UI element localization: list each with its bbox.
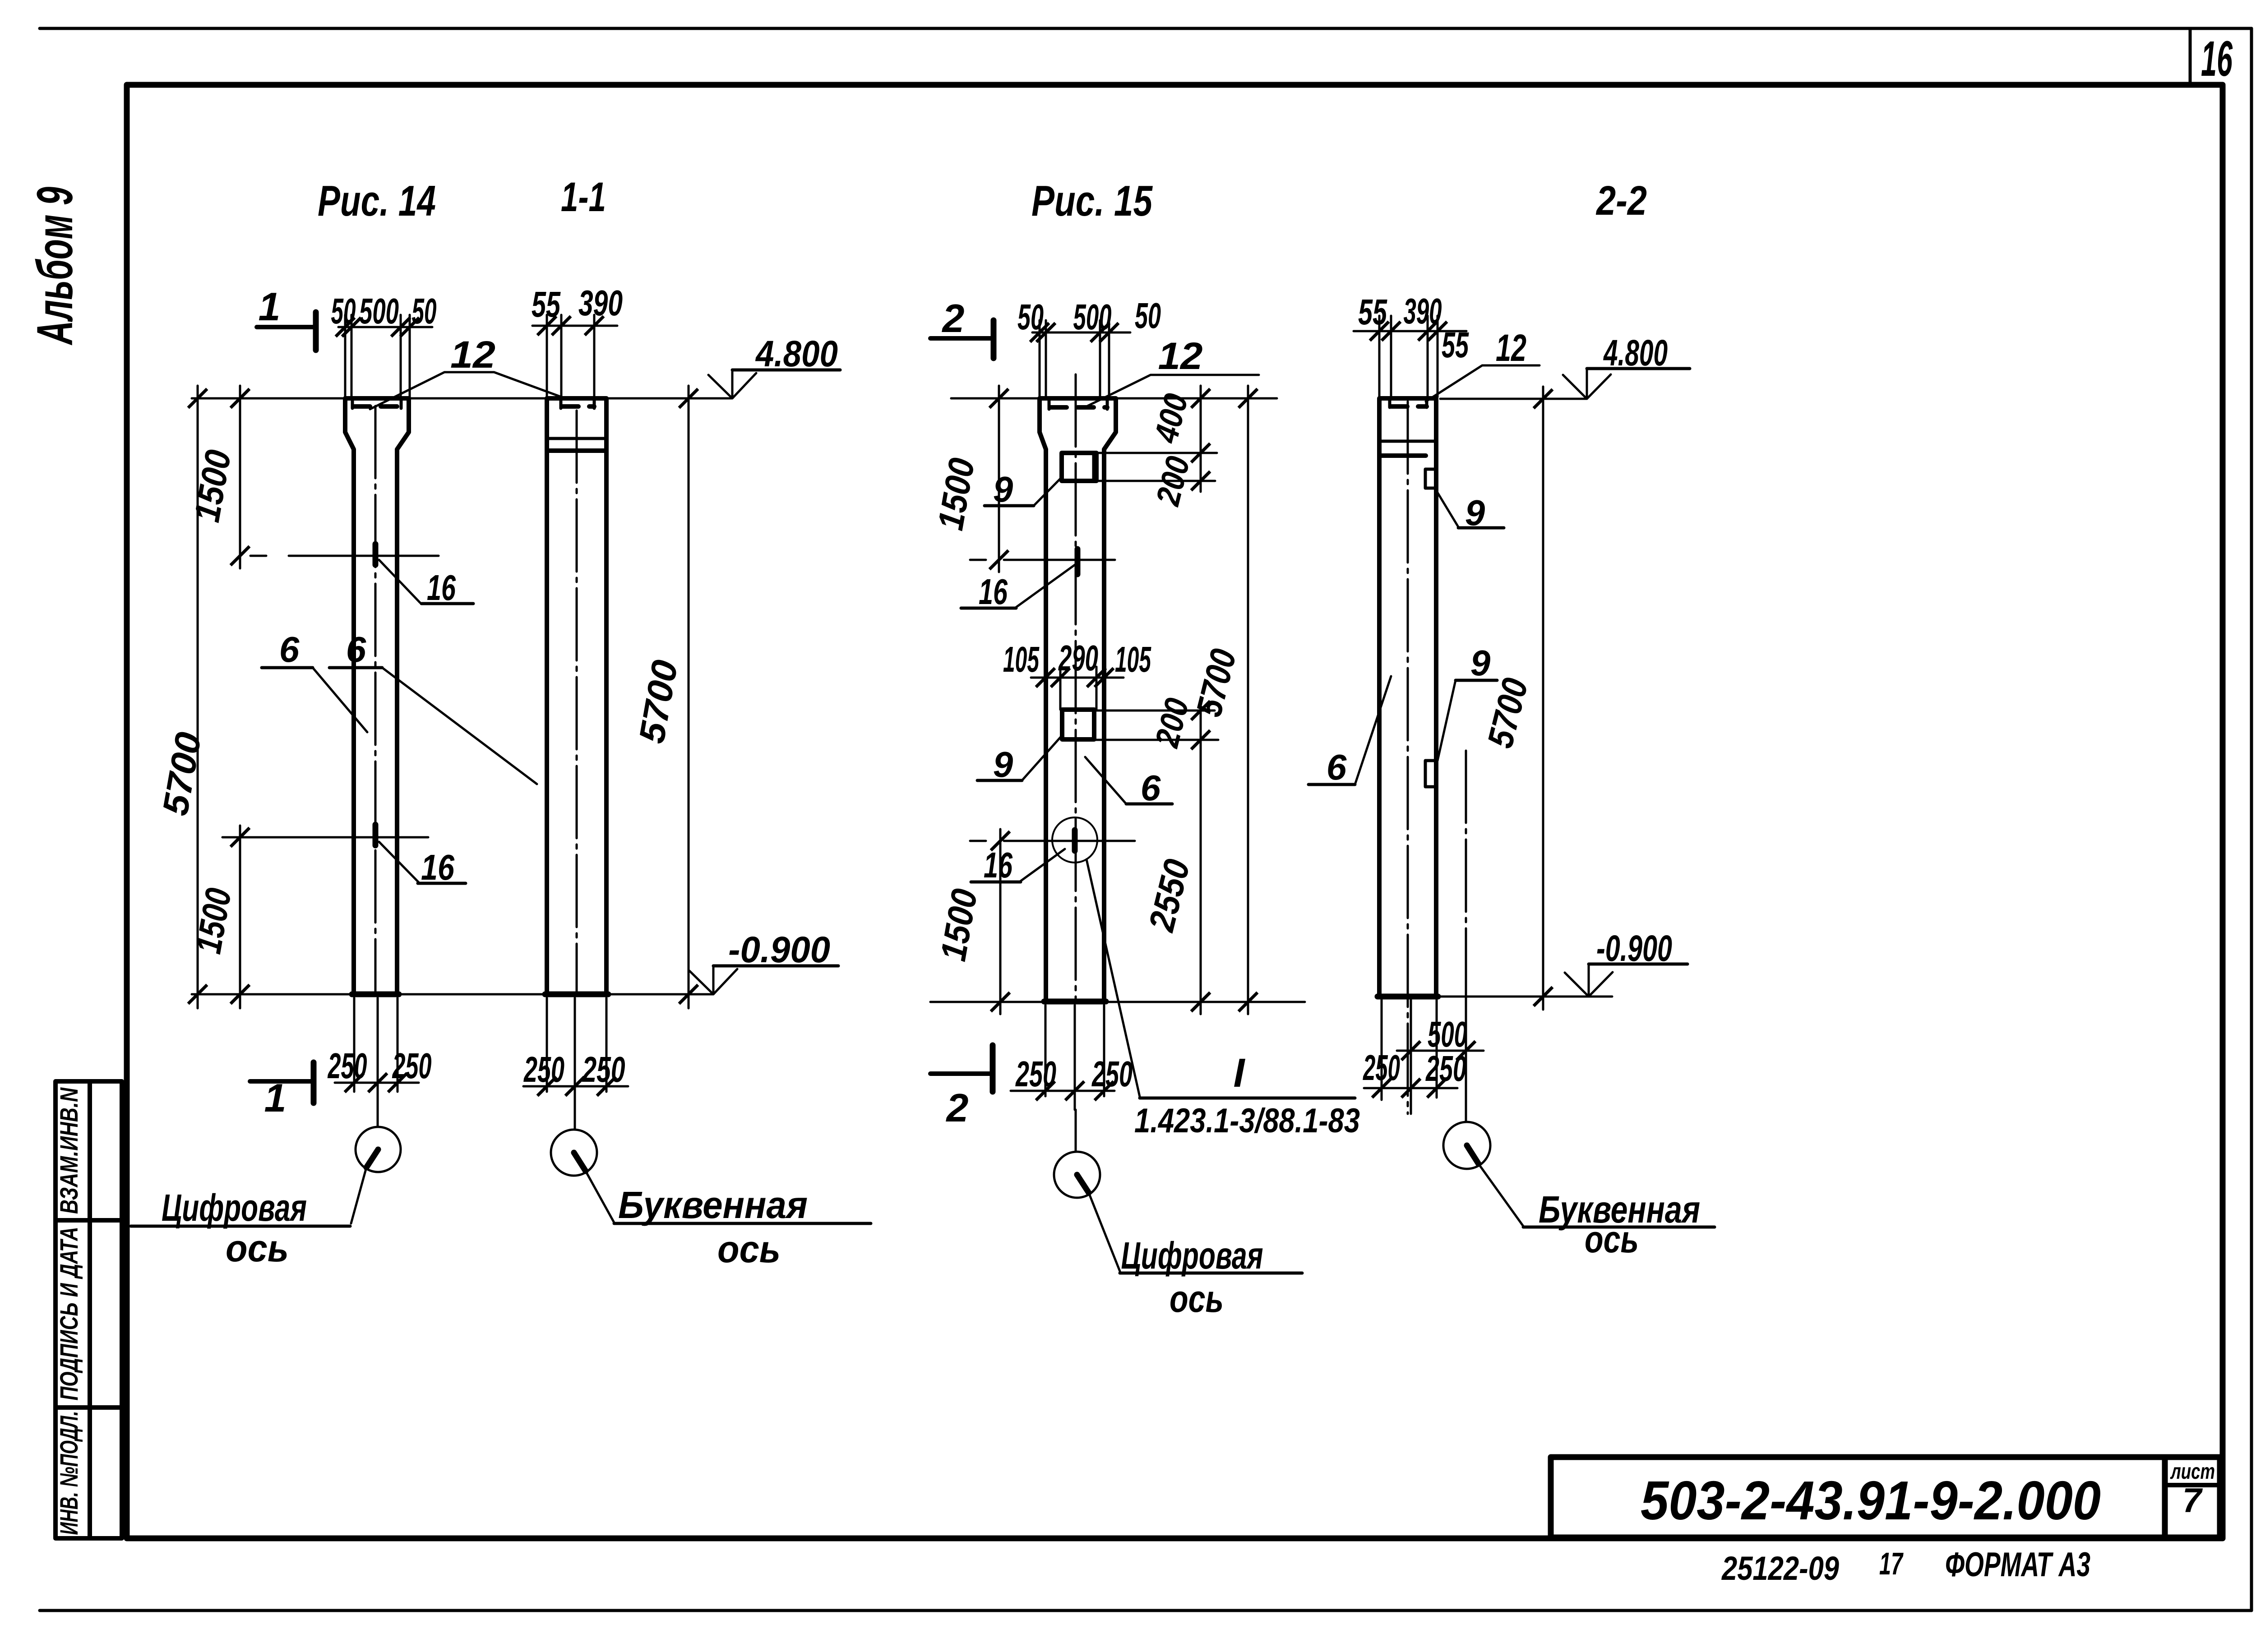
label 12 leader [1083,375,1259,408]
svg-text:50: 50 [1135,295,1161,336]
svg-text:2-2: 2-2 [1595,178,1647,224]
lower 16 underline [418,882,466,885]
svg-text:ось: ось [1170,1278,1224,1320]
column head outline [1040,398,1116,1001]
label 12 leader [1426,365,1539,401]
svg-text:390: 390 [1404,291,1442,331]
lower 1500 dimension line [239,826,241,1008]
lower embed 9 underline [1456,679,1497,682]
dim 500 line [1397,1050,1484,1052]
circled 16 axis line [1012,840,1135,842]
upper embed 9 leader [1435,488,1458,527]
bottom 250-250 dimension line [523,1085,628,1088]
dim 2550 line [1200,740,1202,1014]
label 12 leader (to notches of A and B) [370,372,568,409]
label 6 leader [382,668,537,784]
upper 16 leader [1016,564,1076,607]
FIGURE B : section 1-1 [329,174,871,1270]
dim 5700 line [1247,386,1249,1014]
svg-text:7: 7 [2182,1481,2203,1520]
upper mark 16 bar [1075,549,1081,574]
svg-text:1-1: 1-1 [561,174,606,220]
svg-text:25122-09: 25122-09 [1721,1550,1839,1587]
circled 16 circle [1052,817,1097,863]
svg-text:55: 55 [1358,292,1387,332]
bottom extension lines [354,998,398,1110]
upper 16 axis line [320,555,439,557]
top dimension line [1354,330,1466,332]
top level line [1440,398,1587,400]
stamp divider 2 [55,1405,122,1410]
column head outline [345,398,409,994]
svg-text:50: 50 [1017,297,1044,337]
upper 16 axis dash-dot left [970,559,1012,561]
axis drop line [1075,1110,1077,1152]
5700 dimension line right [688,386,690,1008]
bottom extension lines [1382,1000,1437,1114]
upper embed 9 underline [1458,526,1504,530]
column bottom edge [1378,994,1438,1000]
svg-text:16: 16 [979,572,1008,612]
lower mark 16 bar [373,825,379,845]
bottom 250-250 dimension line [1011,1090,1114,1092]
level mark -0.900 [1565,964,1613,997]
svg-text:ПОДПИСЬ И ДАТА: ПОДПИСЬ И ДАТА [55,1227,83,1401]
axis circle [551,1130,597,1176]
label 9 upper underline [985,504,1034,508]
section mark 1 bottom [311,1062,317,1103]
caption underline [614,1222,871,1225]
bottom extension lines [547,998,606,1112]
bottom 250-250 dimension line [335,1082,419,1084]
svg-text:16: 16 [427,568,456,608]
column top extension lines [1379,316,1438,397]
outer bottom border line [40,1609,2251,1612]
svg-text:6: 6 [346,629,366,669]
stamp inner vertical [88,1081,92,1538]
svg-text:1: 1 [259,284,281,329]
svg-text:Рис. 15: Рис. 15 [1031,177,1153,225]
lower 16 leader [379,842,419,882]
svg-text:12: 12 [1158,335,1203,377]
svg-text:I: I [1233,1051,1245,1096]
svg-text:1.423.1-3/88.1-83: 1.423.1-3/88.1-83 [1134,1102,1360,1140]
svg-text:250: 250 [582,1049,625,1089]
note underline [1140,1097,1355,1100]
FIGURE A : Рис. 14 [131,177,732,1269]
svg-text:250: 250 [1015,1054,1056,1094]
upper opening inner line [1092,453,1096,481]
svg-text:250: 250 [1091,1054,1133,1094]
upper opening extension lines [1097,453,1217,481]
level mark 4.800 [1563,369,1611,399]
column centerline [576,411,578,994]
label 6 leader [1355,676,1391,784]
svg-text:2: 2 [946,1085,969,1130]
upper opening 9 box [1062,453,1096,481]
axis leader stroke [1467,1145,1479,1164]
top dimension line [338,326,432,328]
section mark 2 bottom [990,1045,996,1092]
top dimension ticks [537,316,556,335]
svg-text:250: 250 [392,1046,431,1086]
svg-text:Цифровая: Цифровая [1121,1234,1263,1277]
svg-text:6: 6 [1327,747,1347,787]
svg-text:Буквенная: Буквенная [618,1184,808,1226]
svg-text:500: 500 [1073,297,1112,337]
top level line 4.800 [192,397,732,400]
circled 16 leader [1021,849,1065,881]
axis leader stroke [1077,1175,1089,1193]
svg-text:55: 55 [1442,325,1469,365]
dim 5700 line [1542,387,1544,1010]
svg-text:6: 6 [279,629,300,669]
svg-text:105: 105 [1003,639,1040,679]
top dimension ticks [336,318,355,337]
svg-text:105: 105 [1115,639,1151,679]
axis circle [1054,1152,1100,1198]
column centerline [1075,374,1077,1001]
column bottom edge [352,992,399,997]
svg-text:1: 1 [264,1075,287,1120]
TITLE BLOCK [1551,1457,2220,1537]
bottom extension lines [1045,1005,1104,1110]
top dimension line [532,325,617,327]
title block divider vertical [2162,1457,2168,1537]
overall 5700 dimension line [197,386,199,1008]
lower opening extension lines [1095,711,1218,740]
caption underline [131,1225,350,1228]
svg-text:9: 9 [1470,643,1491,683]
bottom 250-250 dimension line [1364,1087,1457,1089]
head notch dashed line [1391,404,1427,409]
joint line lower [1379,453,1426,458]
lower embed 9 box [1425,761,1436,787]
column bottom edge [545,992,608,997]
upper 16 axis dash-dot left [250,555,320,557]
svg-text:12: 12 [1496,327,1526,369]
svg-text:17: 17 [1879,1546,1904,1581]
svg-text:9: 9 [1465,493,1485,533]
top level line [951,397,1277,400]
lower embed 9 leader [1438,680,1456,761]
label 6 leader [1085,757,1126,804]
head notch verticals [1390,399,1427,407]
outer right border line [2250,28,2253,1610]
caption underline [1120,1272,1302,1275]
svg-text:250: 250 [327,1046,367,1086]
level mark -0.900 [689,966,737,994]
LEFT STAMP COLUMN [55,1081,122,1538]
caption underline [1523,1226,1715,1229]
label 9 upper leader [1034,477,1062,506]
column centerline [1407,401,1409,1114]
label 9 lower underline [977,779,1022,782]
joint line lower [547,448,606,453]
svg-text:390: 390 [578,283,623,323]
stamp divider 1 [55,1218,122,1223]
svg-text:лист: лист [2170,1460,2215,1484]
dim 200 lower line [1200,698,1202,751]
dims 105 290 105 line [1031,677,1123,679]
upper mark 16 bar [373,544,379,565]
svg-text:250: 250 [1425,1048,1466,1089]
axis circle [1443,1122,1490,1169]
svg-text:9: 9 [993,469,1013,509]
dim 400 line [1200,386,1202,492]
svg-text:55: 55 [532,284,561,324]
svg-text:4.800: 4.800 [1603,332,1668,374]
svg-text:ось: ось [226,1227,289,1269]
section mark 2 top [991,320,997,358]
column bottom edge [1044,999,1106,1005]
circled mark 16 bar [1072,830,1078,851]
axis leader stroke [366,1149,378,1167]
head notch verticals [1049,399,1107,409]
top dimension extension lines [547,315,594,397]
svg-text:ФОРМАТ А3: ФОРМАТ А3 [1945,1546,2090,1584]
axis offset line [1465,751,1467,997]
bottom level line [1440,996,1612,998]
label 6 underline [262,666,313,669]
circled 16 underline [971,881,1021,884]
upper 16 leader [379,560,420,603]
svg-text:ось: ось [717,1228,781,1270]
left 1500 upper dimension [998,386,1000,572]
stamp outline [55,1081,122,1538]
svg-text:500: 500 [359,291,399,331]
label 6 underline [1126,803,1172,806]
svg-text:16: 16 [984,845,1012,885]
axis circle [356,1127,401,1172]
circled 16 axis dash-dot left [970,840,1012,842]
axis drop line [377,1110,379,1127]
svg-text:16: 16 [421,847,454,887]
svg-text:ИНВ. №ПОДЛ.: ИНВ. №ПОДЛ. [55,1411,83,1535]
label 6 leader [313,668,367,732]
joint line upper [1379,440,1436,443]
title block divider horizontal [2165,1483,2220,1487]
section mark 1 top [313,312,319,350]
svg-text:Альбом 9: Альбом 9 [27,187,83,346]
svg-text:250: 250 [1363,1047,1400,1088]
upper 1500 dimension line [239,386,241,568]
head notch dashed line [1050,405,1107,410]
upper 16 underline [961,607,1016,610]
column centerline [374,406,377,994]
label 6 underline [1308,783,1355,786]
axis drop line [574,1112,576,1130]
dims 105 290 105 extension lines [1045,667,1104,710]
top dimension extension lines [345,315,410,397]
label 6 underline [329,666,382,669]
bottom level line [192,993,713,996]
top dimension extension lines [1040,320,1109,397]
upper embed 9 box [1425,469,1436,488]
lower opening 9 box [1062,710,1094,739]
outer top border line [40,27,2251,30]
top dimension extension lines [1391,316,1428,397]
title block outline [1551,1457,2220,1537]
svg-text:9: 9 [993,744,1013,784]
head notch verticals [352,399,401,408]
column outline [547,398,606,994]
svg-text:ось: ось [1585,1218,1639,1260]
FIGURE D : section 2-2 [1308,178,1715,1260]
lower 16 axis line [222,836,428,839]
FIGURE C : Рис. 15 [930,177,1360,1320]
upper 16 axis line [1012,559,1115,561]
svg-text:4.800: 4.800 [755,333,838,374]
label 9 lower leader [1022,735,1062,780]
level mark 4.800 [708,370,756,398]
svg-text:-0.900: -0.900 [728,929,830,970]
left 1500 lower dimension [999,829,1002,1014]
svg-text:12: 12 [450,333,495,376]
top dimension line [1032,332,1130,334]
svg-text:-0.900: -0.900 [1596,928,1672,969]
svg-text:Цифровая: Цифровая [162,1186,307,1229]
head notch verticals [561,399,594,408]
column outline [1379,398,1436,997]
svg-text:250: 250 [523,1049,564,1089]
svg-text:ВЗАМ.ИНВ.N: ВЗАМ.ИНВ.N [55,1087,83,1214]
svg-text:50: 50 [412,291,437,331]
axis leader stroke [574,1153,586,1171]
svg-text:Рис. 14: Рис. 14 [318,177,436,225]
page number box [2189,28,2192,85]
svg-text:6: 6 [1141,768,1161,808]
note leader from circle [1086,859,1140,1097]
upper 16 underline [421,602,473,605]
svg-text:290: 290 [1058,638,1098,678]
joint line upper [547,437,606,440]
head notch dashed line [354,404,401,409]
head notch dashed line [562,404,594,409]
svg-text:16: 16 [2201,31,2233,87]
svg-text:503-2-43.91-9-2.000: 503-2-43.91-9-2.000 [1641,1470,2101,1531]
bottom level line [930,1001,1305,1003]
svg-text:2: 2 [942,296,965,341]
svg-text:50: 50 [331,291,356,331]
